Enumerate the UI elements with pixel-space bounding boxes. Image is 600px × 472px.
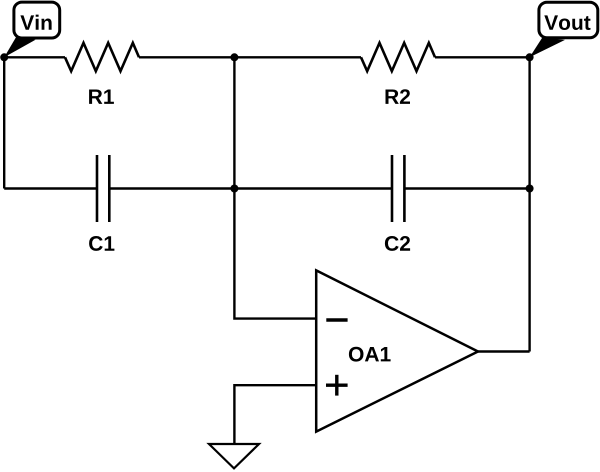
op-amp OA1	[316, 270, 478, 431]
label R2	[386, 89, 411, 104]
label C1	[89, 236, 114, 251]
wire: left vertical from Vin node down to C1 rail	[3, 57, 5, 188]
wire: left rail to C1 left plate	[4, 187, 97, 189]
wire: R2 right lead to Vout node	[435, 56, 530, 58]
junction dot at middle top node	[230, 53, 238, 61]
junction dot at Vout node	[526, 53, 534, 61]
label OA1	[349, 347, 391, 362]
wire: Vin node to R1 left lead	[4, 56, 65, 58]
resistor R2	[361, 43, 435, 71]
op-amp minus (inverting) input symbol	[326, 318, 347, 321]
label R1	[89, 90, 114, 104]
capacitor C1	[97, 155, 109, 222]
capacitor C2	[392, 155, 404, 222]
op-amp plus (non-inverting) input symbol	[326, 375, 348, 396]
wire: op-amp non-inverting input left to ground drop	[234, 385, 316, 444]
resistor R1	[65, 43, 139, 71]
wire: R1 right lead to middle top junction	[139, 56, 234, 58]
wire: C1 right plate to middle junction	[109, 187, 234, 189]
node Vout callout bubble	[530, 2, 598, 57]
ground	[209, 444, 259, 468]
wire: middle junction to C2 left plate	[234, 187, 392, 189]
junction dot at middle rail node	[230, 185, 238, 193]
wire: C2 right plate to right rail junction	[404, 187, 529, 189]
wire: middle top junction to R2 left lead	[234, 56, 361, 58]
node Vin callout bubble	[4, 2, 59, 57]
wire: middle junction down and right to op-amp inverting input	[234, 189, 316, 319]
junction dot at Vin node	[0, 53, 8, 61]
wire: middle vertical from top junction to middle junction	[233, 57, 235, 188]
wire: right vertical from Vout node down to op-amp output	[528, 57, 530, 351]
junction dot at right rail node	[526, 185, 534, 193]
wire: op-amp output to right rail	[478, 350, 530, 352]
label C2	[385, 236, 410, 251]
